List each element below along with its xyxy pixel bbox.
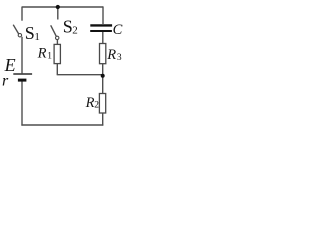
svg-text:R: R (37, 46, 47, 62)
svg-text:S: S (25, 23, 35, 43)
svg-text:C: C (113, 22, 123, 38)
svg-text:R: R (106, 47, 116, 63)
svg-text:3: 3 (117, 53, 122, 63)
svg-text:1: 1 (47, 51, 52, 61)
svg-text:r: r (2, 73, 9, 90)
svg-text:2: 2 (94, 101, 99, 111)
svg-text:2: 2 (72, 24, 78, 36)
svg-text:R: R (85, 95, 95, 111)
svg-text:1: 1 (34, 31, 40, 43)
